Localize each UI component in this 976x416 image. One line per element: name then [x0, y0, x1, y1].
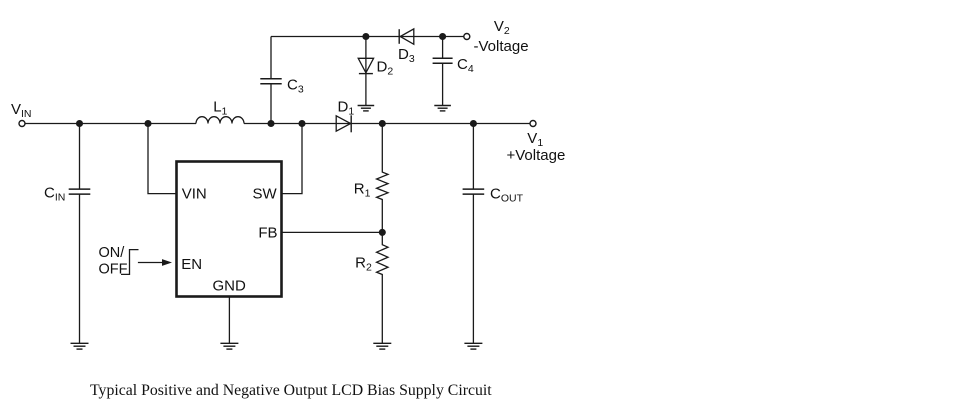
node junction R1 top	[379, 121, 385, 127]
svg-text:VIN: VIN	[11, 101, 32, 120]
node junction VIN-pin	[145, 121, 151, 127]
node junction FB	[379, 230, 385, 236]
svg-text:V2: V2	[494, 18, 510, 37]
capacitor C3	[260, 37, 281, 124]
node junction SW	[299, 121, 305, 127]
svg-text:ON/: ON/	[99, 245, 126, 261]
capacitor COUT	[463, 124, 485, 344]
svg-text:OFF: OFF	[99, 261, 128, 277]
node VIN input terminal	[19, 121, 25, 127]
svg-text:C4: C4	[457, 56, 474, 75]
svg-text:COUT: COUT	[490, 186, 524, 205]
node junction D2	[363, 34, 369, 40]
wire main rail right (L1 to V1)	[244, 123, 530, 125]
svg-text:R2: R2	[355, 255, 372, 274]
svg-text:D3: D3	[398, 46, 415, 65]
svg-text:CIN: CIN	[44, 185, 65, 204]
capacitor CIN	[69, 124, 91, 344]
wire EN arrow	[138, 259, 172, 266]
svg-text:FB: FB	[258, 225, 277, 242]
wire SW pin	[282, 124, 303, 194]
ground (GND pin)	[220, 343, 238, 349]
svg-text:Typical Positive and Negative: Typical Positive and Negative Output LCD…	[90, 382, 492, 399]
ground (C4)	[434, 106, 451, 111]
wire VIN pin	[148, 124, 177, 194]
node junction C3	[268, 121, 274, 127]
svg-text:D1: D1	[338, 99, 355, 118]
capacitor C4	[433, 37, 453, 106]
svg-text:C3: C3	[287, 77, 304, 96]
node junction CIN	[77, 121, 83, 127]
node V1 output terminal	[530, 121, 536, 127]
svg-text:GND: GND	[213, 278, 247, 295]
wire FB pin	[282, 231, 383, 233]
wire top rail	[271, 36, 464, 38]
wire main rail left (VIN to L1)	[25, 123, 196, 125]
svg-text:EN: EN	[181, 256, 202, 273]
svg-text:-Voltage: -Voltage	[474, 38, 529, 55]
wire ON/OFF step symbol	[121, 250, 139, 275]
ground (CIN)	[71, 343, 89, 349]
svg-text:D2: D2	[377, 58, 394, 77]
svg-text:+Voltage: +Voltage	[507, 147, 566, 164]
diode D3	[399, 29, 414, 44]
svg-text:R1: R1	[354, 180, 371, 199]
diode D2	[358, 37, 373, 106]
ground (D2)	[358, 106, 375, 111]
node junction COUT	[471, 121, 477, 127]
diode D1	[336, 115, 351, 132]
svg-text:VIN: VIN	[182, 186, 207, 203]
ground (COUT)	[464, 343, 482, 349]
svg-text:L1: L1	[213, 98, 227, 117]
resistor R1	[377, 124, 388, 233]
wire GND pin	[228, 297, 230, 344]
ground (R2)	[373, 343, 391, 349]
node junction C4	[440, 34, 446, 40]
op-amp U1 regulator box	[177, 162, 282, 297]
svg-text:SW: SW	[253, 186, 278, 203]
node V2 output terminal	[464, 34, 470, 40]
inductor L1	[196, 117, 244, 124]
resistor R2	[377, 232, 388, 343]
